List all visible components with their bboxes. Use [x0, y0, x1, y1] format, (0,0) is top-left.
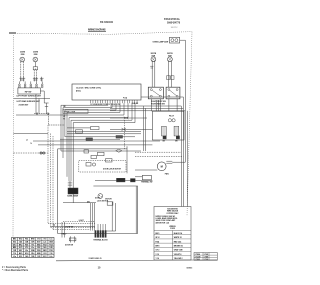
svg-text:MOTOR: MOTOR — [105, 198, 112, 200]
cabinet frame top (dashed) — [9, 32, 192, 35]
svg-text:INF SW: INF SW — [25, 91, 32, 93]
wire fanout 3 — [67, 111, 120, 113]
svg-text:168 P5C: 168 P5C — [171, 27, 179, 29]
revision table — [194, 253, 217, 261]
wire right runs lower 2 — [38, 144, 152, 146]
wire mid run 2 with connector — [110, 128, 152, 130]
bus wire right 2 — [182, 97, 184, 207]
svg-text:W12: W12 — [25, 253, 29, 255]
svg-text:* = Non-Illustrated Parts: * = Non-Illustrated Parts — [2, 269, 29, 272]
surface element R2 — [168, 57, 173, 62]
connector J1 — [20, 77, 26, 79]
wire S3 to K1 b — [176, 99, 178, 111]
svg-text:L1a: L1a — [31, 247, 34, 249]
connector J3 — [40, 77, 44, 79]
wire dashed vertical mid — [124, 120, 126, 150]
svg-text:DLB BK: DLB BK — [132, 103, 139, 105]
power connector P1 (hatched pins) — [95, 231, 96, 238]
svg-text:BK5: BK5 — [37, 244, 40, 246]
thermal switch S4 — [142, 175, 151, 180]
svg-text:205TB: 205TB — [20, 52, 26, 54]
wire fanout 4 (long to left switches) — [16, 114, 124, 116]
wire fanout 6 — [71, 119, 132, 121]
surface unit switch S1 — [18, 88, 41, 94]
svg-text:RED 14-6: RED 14-6 — [174, 240, 181, 243]
svg-text:V 10: V 10 — [156, 254, 160, 256]
svg-text:L2x: L2x — [50, 256, 53, 258]
bus wire right 3 — [186, 111, 188, 207]
svg-text:W10: W10 — [13, 244, 17, 246]
svg-text:BK 5: BK 5 — [156, 233, 160, 235]
wire door switch feeds — [61, 222, 63, 238]
svg-text:V10: V10 — [43, 239, 46, 241]
relay coil 2 — [174, 126, 179, 136]
wire color code table — [12, 238, 55, 258]
svg-text:BK5: BK5 — [13, 239, 16, 241]
oven door box inner edge — [135, 186, 137, 234]
svg-text:P/N 316902102: P/N 316902102 — [100, 22, 114, 24]
svg-text:W 12: W 12 — [156, 237, 160, 239]
wire thermal left — [135, 176, 142, 178]
wire broil band — [95, 179, 152, 181]
svg-text:L1a: L1a — [50, 239, 53, 241]
wire fanout 3 drop — [66, 112, 68, 176]
svg-text:PUBLICATION No.: PUBLICATION No. — [164, 18, 180, 21]
wire fanout 5 — [69, 117, 128, 119]
wire dashed with terminals — [14, 152, 49, 154]
wire right run 3 — [110, 110, 185, 112]
wire bundle turn right 2 — [51, 227, 96, 229]
latch box — [91, 155, 97, 158]
svg-text:WIRING DIAGRAMS: WIRING DIAGRAMS — [88, 28, 106, 32]
broil terminal blob 2 — [131, 179, 136, 182]
latch cam box — [86, 163, 91, 167]
svg-text:R: R — [64, 119, 65, 121]
limiter L2 — [33, 67, 37, 70]
wire dashed door — [63, 220, 95, 222]
svg-text:L2x: L2x — [43, 242, 46, 244]
svg-text:GY2: GY2 — [19, 247, 22, 249]
svg-text:3 TLW: 3 TLW — [204, 254, 209, 256]
svg-text:RIGHT REAR SW: RIGHT REAR SW — [151, 102, 165, 105]
svg-text:R14: R14 — [25, 238, 28, 241]
wire dashed to fan 2 — [135, 156, 183, 158]
bake element hatched lead — [69, 181, 71, 188]
wire from frame left — [14, 133, 49, 135]
wire lock horizontal — [106, 230, 116, 232]
svg-text:W12: W12 — [43, 244, 47, 246]
wire fanout 2 — [65, 109, 116, 111]
svg-text:BK2: BK2 — [19, 244, 22, 246]
U1 pin comb — [90, 100, 92, 103]
wire dashed run B — [48, 114, 50, 125]
svg-text:OVEN LT SW: OVEN LT SW — [64, 111, 75, 113]
surface unit switch S2 — [148, 87, 163, 99]
wire L2 leads — [33, 70, 35, 77]
surface element L1 — [20, 57, 25, 62]
wire fanout 0 drop — [60, 105, 62, 151]
svg-text:N12: N12 — [37, 247, 40, 249]
oven cluster boxes — [98, 152, 105, 155]
oven body outline — [58, 146, 138, 233]
svg-text:L1: L1 — [26, 139, 28, 141]
wire fanout 7 — [73, 122, 135, 124]
wire drops — [35, 94, 37, 114]
surface element R1 — [151, 57, 156, 62]
svg-text:x: x — [35, 68, 36, 70]
svg-text:BK: BK — [64, 106, 66, 108]
terminal pad TB2 — [86, 138, 93, 141]
svg-text:GRAY 12W: GRAY 12W — [174, 249, 183, 252]
svg-text:BLACK 14: BLACK 14 — [174, 232, 182, 235]
wire right run 1 — [110, 105, 181, 107]
svg-text:58X03: 58X03 — [187, 267, 194, 269]
wire right runs lower 1 — [33, 140, 160, 142]
svg-text:CODE: CODE — [170, 228, 176, 230]
svg-text:LIGHT: LIGHT — [79, 220, 84, 222]
cabinet frame right (dashed) — [187, 32, 192, 216]
wire fanout 7 drop — [72, 123, 74, 203]
legend table — [154, 230, 191, 232]
wire mid run with connector — [110, 117, 147, 119]
wire dashed to fan 1 — [135, 151, 181, 153]
svg-text:Y 16: Y 16 — [156, 258, 160, 260]
diamond connector — [116, 149, 122, 152]
wire lower run — [51, 226, 96, 228]
wire fanout 6 drop — [70, 120, 72, 181]
connector on R1 lead — [150, 65, 153, 67]
svg-text:THERMAL SW: THERMAL SW — [141, 180, 153, 183]
svg-text:DOOR LATCH MOTOR: DOOR LATCH MOTOR — [103, 167, 122, 170]
wire to plug 3 — [94, 203, 96, 231]
component box on run — [76, 130, 83, 133]
svg-text:WHITE 12: WHITE 12 — [174, 237, 182, 239]
wire right run 2 — [110, 107, 183, 109]
svg-text:GY2: GY2 — [43, 253, 46, 255]
wire fan left — [135, 169, 157, 171]
svg-text:(EOC): (EOC) — [76, 90, 81, 92]
connector pair on R2 leads — [167, 76, 170, 80]
bake element E1 (dark) — [68, 188, 78, 194]
wire bundle turn right 1 — [48, 222, 95, 224]
svg-text:N12: N12 — [19, 256, 22, 258]
svg-text:DOOR SW: DOOR SW — [65, 244, 73, 246]
wire fanout 2 drop — [64, 110, 66, 137]
door motor B2 — [98, 194, 103, 199]
wire to plug 2 — [92, 203, 94, 231]
svg-text:5995424778: 5995424778 — [167, 21, 181, 24]
terminal pad TB3 — [116, 136, 123, 139]
wire plug feed stubs — [97, 224, 99, 231]
relay coil 1 — [162, 126, 167, 136]
svg-text:3057B: 3057B — [167, 53, 173, 55]
svg-text:BR 8: BR 8 — [156, 246, 160, 248]
svg-text:V10: V10 — [25, 247, 28, 249]
svg-text:R18: R18 — [25, 244, 28, 246]
surface unit switch S3 — [166, 87, 180, 99]
svg-text:2100W UNIT: 2100W UNIT — [19, 104, 30, 106]
svg-text:W12: W12 — [19, 239, 23, 241]
terminal strip TB1 — [19, 84, 21, 86]
svg-text:LEFT REAR SURFACE UNIT: LEFT REAR SURFACE UNIT — [17, 100, 41, 103]
svg-text:M: M — [161, 165, 163, 169]
svg-text:L2x: L2x — [25, 250, 28, 252]
wire vertical mid 3 — [155, 100, 157, 111]
wire L1 leads — [20, 62, 22, 77]
fan connector — [166, 160, 172, 162]
wire bundle vertical 2 — [50, 134, 52, 228]
svg-text:R14: R14 — [49, 243, 52, 246]
wire fanout 1 drop — [62, 108, 64, 158]
svg-text:3057B: 3057B — [151, 53, 157, 55]
cabinet frame left (dashed) — [12, 35, 15, 237]
svg-text:Y16: Y16 — [31, 244, 34, 246]
connector J2 — [33, 77, 38, 79]
wire lamp to right bus — [180, 39, 186, 41]
svg-text:V10: V10 — [49, 253, 52, 255]
svg-text:R 44: R 44 — [156, 240, 160, 243]
svg-text:W10: W10 — [37, 250, 41, 252]
wire run extra 2 — [60, 138, 120, 140]
wire R2 leads — [168, 62, 170, 88]
junction node dot — [53, 224, 54, 225]
convection fan motor B1 — [157, 162, 166, 171]
svg-text:1 T6W: 1 T6W — [204, 256, 209, 258]
component box on run 2 — [91, 127, 100, 130]
wire dashed run A — [34, 113, 50, 115]
oven lamp DS1 — [169, 37, 179, 43]
cabinet frame top start tick — [9, 32, 16, 34]
electronic oven control U1 (CLOCK/ERC) — [72, 84, 141, 100]
relay box K1 — [152, 111, 184, 140]
footer rule — [56, 259, 218, 262]
svg-text:3 T/L6W: 3 T/L6W — [195, 256, 201, 258]
svg-text:LOCK MOTOR: LOCK MOTOR — [97, 201, 109, 203]
wire run extra 1 — [67, 133, 141, 135]
svg-text:2 T6900: 2 T6900 — [195, 254, 200, 256]
wire lock jog box — [107, 202, 113, 205]
svg-text:BR8: BR8 — [31, 239, 34, 241]
svg-text:N12: N12 — [13, 242, 16, 244]
wire vertical mid 1 — [142, 106, 144, 151]
svg-text:OVEN LAMP 40W: OVEN LAMP 40W — [153, 40, 169, 43]
svg-text:BR8: BR8 — [37, 253, 40, 255]
svg-text:BAKE 2585W: BAKE 2585W — [67, 194, 78, 197]
wire switch row — [14, 98, 50, 100]
wire bundle turn right 3 — [53, 229, 90, 231]
wire to plug 1 — [90, 203, 92, 231]
wire U1 to right column 1 — [141, 96, 183, 98]
wire R1 leads — [151, 62, 153, 88]
wire oven top run — [61, 150, 100, 152]
surface element L2 — [33, 57, 38, 62]
wire S3 to K1 a — [168, 99, 170, 111]
svg-text:VIOLET 8: VIOLET 8 — [174, 254, 182, 256]
svg-text:GN8: GN8 — [49, 242, 53, 244]
wire door run — [63, 202, 96, 204]
svg-text:BK2: BK2 — [43, 250, 46, 252]
wire fan right — [172, 161, 185, 163]
dashed sub-box (door latch) — [79, 161, 126, 172]
wire fanout 1 — [63, 107, 112, 109]
wire bundle vertical 3 — [52, 136, 54, 230]
svg-text:BROWN 16: BROWN 16 — [174, 246, 183, 248]
wire bundle vertical 1 — [47, 125, 49, 223]
wire vertical mid 4 — [157, 100, 159, 111]
svg-text:GY 2: GY 2 — [156, 250, 160, 252]
svg-text:# = Fast-moving Parts: # = Fast-moving Parts — [2, 266, 27, 269]
legend box — [154, 207, 191, 261]
wire upper center run — [67, 131, 141, 133]
wire S2 to K1 b — [159, 99, 161, 111]
svg-text:CLOCK / ERC OVEN CTRL: CLOCK / ERC OVEN CTRL — [76, 87, 102, 89]
svg-text:DOOR SW: DOOR SW — [65, 226, 73, 228]
wire vertical mid 2 — [145, 108, 147, 151]
junction J4 — [44, 102, 48, 104]
wire S2 to K1 a — [150, 99, 152, 111]
svg-text:R14: R14 — [31, 252, 34, 255]
oven inner vertical — [126, 149, 128, 173]
svg-text:L1a: L1a — [13, 256, 16, 258]
svg-text:COPPER ONLY: COPPER ONLY — [166, 213, 179, 215]
svg-text:205TB: 205TB — [33, 52, 39, 54]
wire fanout 0 — [61, 104, 108, 106]
oven light switch label box — [63, 109, 88, 113]
svg-text:R18: R18 — [49, 250, 52, 252]
bus wire right 1 — [180, 106, 182, 207]
wire lock vertical 1 — [111, 202, 113, 231]
latch cam circle — [92, 163, 95, 166]
svg-text:LEFT FRONT SURFACE UNIT: LEFT FRONT SURFACE UNIT — [17, 95, 42, 98]
broil terminal blob 1 — [117, 178, 126, 182]
wire lock vertical 2 — [115, 203, 117, 231]
wire fanout 5 drop — [68, 118, 70, 182]
svg-text:GN8: GN8 — [31, 250, 35, 252]
svg-text:316519200 D: 316519200 D — [88, 258, 102, 260]
svg-text:Y16: Y16 — [13, 253, 16, 255]
svg-text:GY2: GY2 — [37, 239, 40, 241]
door switch S5 — [70, 236, 72, 242]
svg-text:BK5: BK5 — [19, 253, 22, 255]
svg-text:BR8: BR8 — [13, 247, 16, 249]
svg-text:FAN: FAN — [165, 172, 169, 175]
hi-limit box — [84, 150, 89, 153]
